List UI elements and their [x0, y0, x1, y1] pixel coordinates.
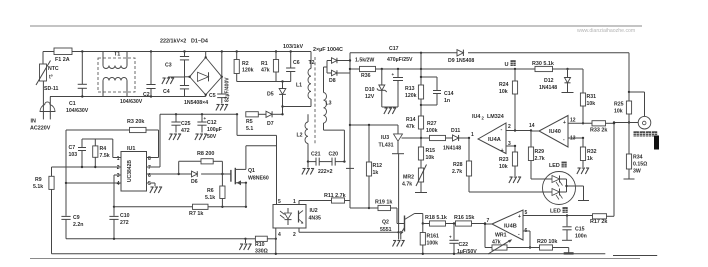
wire U4B pin6: [523, 231, 531, 249]
svg-text:3: 3: [117, 173, 120, 179]
svg-text:U: U: [505, 62, 509, 68]
wire U40 pin12: [568, 122, 592, 124]
resistor R25 10k: [614, 92, 632, 124]
transformer T1 common-mode choke: [98, 52, 135, 97]
svg-text:www.dianziaihaozhe.com: www.dianziaihaozhe.com: [577, 28, 635, 34]
svg-text:+: +: [501, 148, 504, 154]
pin 6: [148, 173, 151, 179]
pin 1: [113, 156, 121, 162]
shunt regulator U3 TL431: [379, 125, 422, 232]
svg-text:103: 103: [69, 152, 78, 158]
svg-text:TL431: TL431: [379, 143, 394, 149]
resistor R12 1k: [366, 125, 382, 208]
wire feedback to LED: [469, 191, 551, 193]
svg-text:47k: 47k: [261, 68, 270, 74]
svg-text:C21: C21: [311, 152, 321, 158]
op-amp U40: [529, 116, 576, 148]
diode D5: [267, 82, 286, 115]
resistor R16 15k: [454, 215, 486, 226]
svg-text:R33 2k: R33 2k: [590, 128, 607, 134]
wire U40 output: [531, 130, 539, 132]
svg-text:100k: 100k: [427, 241, 439, 247]
resistor R34 0.15ohm 3W: [624, 123, 648, 180]
bridge rectifier D1-D4: [184, 52, 223, 107]
svg-text:2: 2: [293, 232, 296, 238]
resistor R19 1k: [369, 200, 397, 211]
svg-text:8: 8: [148, 156, 151, 162]
svg-text:2.7k: 2.7k: [535, 156, 545, 162]
svg-text:1N4148: 1N4148: [443, 146, 461, 152]
svg-text:R23: R23: [499, 157, 509, 163]
wire U-charge rail: [350, 68, 583, 70]
wire R11 jog: [350, 207, 370, 209]
wire drain node to mosfet: [246, 146, 277, 170]
wire plug top feed: [629, 92, 645, 116]
svg-text:IU40: IU40: [549, 129, 561, 135]
svg-text:103/1kV: 103/1kV: [283, 44, 303, 50]
svg-text:1.5k/2W: 1.5k/2W: [355, 58, 374, 64]
pin 5: [278, 199, 281, 205]
svg-text:1n: 1n: [444, 98, 450, 104]
wire U4A inverting input: [506, 129, 532, 131]
resistor R8 200: [179, 151, 223, 174]
svg-text:D1~D4: D1~D4: [191, 39, 208, 45]
svg-text:NTC: NTC: [48, 66, 59, 72]
label 2xuF 1004C: [313, 47, 343, 53]
resistor R2 120k: [234, 52, 254, 82]
pin 5: [147, 181, 163, 193]
svg-text:C25: C25: [181, 121, 191, 127]
transformer T2 core dashed line: [309, 57, 316, 144]
wire pin6 gate row: [147, 173, 231, 175]
wire drain stairs: [237, 114, 277, 135]
ground for C3 C4 midpoint: [162, 77, 185, 84]
svg-text:F1 2A: F1 2A: [55, 57, 70, 63]
diode D11 1N4148: [443, 128, 470, 152]
svg-text:T2: T2: [309, 60, 315, 66]
wire snubber bottom: [237, 80, 291, 82]
node Q2 collector: [422, 222, 424, 224]
svg-text:R29: R29: [535, 149, 545, 155]
svg-text:L3: L3: [326, 101, 332, 107]
capacitor C6: [286, 52, 300, 82]
svg-text:C9: C9: [73, 215, 80, 221]
resistor R5 5.1: [246, 112, 258, 132]
svg-text:IU4A: IU4A: [488, 137, 501, 143]
wire cs ground row: [66, 238, 277, 240]
capacitor C17 470uF/25V: [387, 46, 413, 107]
svg-text:5.1: 5.1: [246, 126, 253, 132]
pin 2: [117, 165, 120, 171]
opto transistor symbol: [299, 211, 304, 224]
svg-text:R11 2.7k: R11 2.7k: [324, 193, 346, 199]
resistor R11 2.7k: [324, 193, 350, 203]
svg-text:R15: R15: [426, 148, 436, 154]
svg-text:R20 10k: R20 10k: [537, 239, 557, 245]
capacitor C4: [163, 60, 189, 97]
svg-text:IU2: IU2: [310, 208, 318, 214]
svg-text:222/1kV×2: 222/1kV×2: [160, 39, 186, 45]
diode D7: [258, 111, 283, 127]
capacitor C14 1n: [420, 76, 454, 105]
svg-text:LED: LED: [550, 209, 561, 215]
svg-text:C1: C1: [69, 101, 76, 107]
wire opto pin4: [275, 228, 277, 239]
svg-text:C5: C5: [209, 93, 216, 99]
pin 4: [65, 181, 121, 187]
wire U40 pin13: [568, 137, 584, 139]
wire bottom common rail: [52, 253, 658, 256]
svg-text:D12: D12: [544, 78, 554, 84]
svg-text:R9: R9: [35, 177, 42, 183]
svg-text:222×2: 222×2: [318, 169, 333, 175]
diode D8 pair: [324, 58, 351, 84]
svg-text:1: 1: [117, 156, 120, 162]
svg-text:100µF: 100µF: [207, 127, 222, 133]
wire pin2 feedback: [52, 166, 122, 168]
resistor R4 7.5k: [93, 139, 110, 167]
wire bottom mains rail: [50, 95, 206, 97]
resistor R28 2.7k: [452, 138, 472, 192]
svg-text:R28: R28: [453, 162, 463, 168]
svg-text:L1: L1: [296, 83, 302, 89]
svg-text:C15: C15: [575, 227, 585, 233]
svg-text:R13: R13: [405, 86, 415, 92]
svg-text:272: 272: [120, 220, 129, 226]
capacitor C20: [318, 152, 346, 176]
ground secondary: [302, 162, 314, 175]
capacitor C7 103: [69, 139, 113, 167]
svg-text:C14: C14: [444, 91, 454, 97]
transistor Q2 5551: [380, 208, 423, 240]
resistor R31 10k: [580, 69, 596, 125]
wire L1 bottom to drain node: [283, 106, 312, 108]
resistor R33 2k: [590, 121, 615, 134]
svg-text:50V: 50V: [207, 134, 217, 140]
zener D10 12V: [365, 69, 387, 107]
svg-text:SD-11: SD-11: [44, 86, 59, 92]
pin 3: [114, 173, 121, 207]
capacitor C10 272: [109, 206, 129, 239]
capacitor C5 82uF/400V: [209, 52, 231, 111]
svg-text:12: 12: [570, 118, 576, 124]
svg-text:104/630V: 104/630V: [120, 99, 143, 105]
label 222/1kV x2: [160, 39, 186, 45]
svg-text:Q1: Q1: [248, 168, 255, 174]
capacitor C21: [307, 152, 332, 166]
svg-text:R8 200: R8 200: [197, 151, 214, 157]
svg-text:2×µF 1004C: 2×µF 1004C: [313, 47, 343, 53]
top border line: [30, 25, 642, 27]
svg-text:Q2: Q2: [382, 220, 389, 226]
svg-text:C12: C12: [207, 120, 217, 126]
resistor R6 5.1k: [205, 174, 225, 207]
svg-text:IN: IN: [31, 119, 36, 125]
wire R29 to LED red: [530, 161, 532, 180]
ground TL431 Q2: [393, 232, 405, 246]
svg-text:R32: R32: [587, 149, 597, 155]
resistor R32 1k: [577, 138, 597, 174]
resistor R10 330: [246, 236, 276, 254]
resistor R29 2.7k: [528, 131, 544, 179]
capacitor C2: [120, 52, 156, 106]
svg-text:7.5k: 7.5k: [100, 153, 110, 159]
svg-text:R2: R2: [242, 61, 249, 67]
svg-text:R6: R6: [207, 188, 214, 194]
wire secondary top rail with D9: [350, 52, 629, 54]
optocoupler U2 4N35: [273, 205, 321, 229]
svg-text:R1: R1: [261, 61, 268, 67]
svg-text:L2: L2: [297, 133, 303, 139]
svg-text:t°: t°: [49, 75, 53, 81]
wire vcc rail caps: [160, 113, 238, 115]
svg-text:MR2: MR2: [403, 175, 414, 181]
resistor R18 5.1k: [423, 215, 456, 226]
svg-text:R161: R161: [427, 234, 440, 240]
svg-text:1N4148: 1N4148: [539, 85, 557, 91]
thermistor MR2 4.7k: [402, 165, 427, 193]
svg-text:+: +: [518, 214, 521, 220]
svg-text:82µF/400V: 82µF/400V: [225, 77, 231, 102]
wire TL431 top link: [350, 124, 398, 126]
svg-text:7: 7: [487, 218, 490, 224]
svg-text:1: 1: [293, 199, 296, 205]
svg-text:7: 7: [148, 165, 151, 171]
capacitor C15 100n: [562, 216, 587, 241]
svg-text:R10: R10: [255, 242, 265, 248]
svg-text:+: +: [563, 120, 566, 126]
wire current sense row: [114, 206, 247, 208]
resistor R23 10k: [499, 146, 521, 183]
op-amp U4B: [487, 210, 528, 240]
resistor R24 10k: [499, 69, 518, 131]
capacitor C3: [165, 52, 189, 69]
capacitor C22 1uF/50V: [449, 224, 477, 256]
svg-text:R7 1k: R7 1k: [189, 211, 203, 217]
svg-text:472: 472: [181, 128, 190, 134]
svg-text:LM324: LM324: [487, 114, 504, 120]
svg-text:AC220V: AC220V: [30, 126, 51, 132]
IC IU1 UC3842B: [121, 146, 147, 191]
resistor R36 1.5k/2W: [355, 58, 376, 80]
svg-text:C17: C17: [389, 46, 399, 52]
svg-text:C6: C6: [293, 60, 300, 66]
wire U4B output node: [484, 223, 492, 225]
svg-text:10k: 10k: [587, 101, 596, 107]
transformer T2 aux winding L2: [297, 114, 309, 161]
svg-text:14: 14: [529, 123, 535, 129]
svg-text:IU4: IU4: [472, 114, 480, 120]
diode D12 1N4148: [539, 69, 574, 93]
wire U4A noninverting input: [506, 145, 516, 147]
svg-text:47k: 47k: [492, 240, 501, 246]
svg-text:R12: R12: [373, 163, 383, 169]
svg-text:D7: D7: [267, 121, 274, 127]
svg-text:C3: C3: [165, 63, 172, 69]
svg-text:R5: R5: [246, 119, 253, 125]
svg-text:R30 5.1k: R30 5.1k: [532, 61, 554, 67]
wire top rail drop right: [628, 53, 630, 93]
black mark: [654, 136, 659, 150]
wire opto pin2 row: [299, 228, 400, 234]
pin 2: [293, 232, 296, 238]
svg-text:R34: R34: [633, 155, 643, 161]
svg-text:C7: C7: [69, 145, 76, 151]
svg-text:4N35: 4N35: [309, 216, 322, 222]
plug IN AC220V: [30, 97, 55, 132]
svg-text:W8NE60: W8NE60: [248, 176, 269, 182]
resistor R1 47k: [261, 52, 279, 82]
capacitor C12 100uF 50V: [195, 114, 222, 140]
svg-text:D6: D6: [191, 179, 198, 185]
fuse F1: [54, 48, 72, 63]
svg-text:IU3: IU3: [381, 135, 389, 141]
wire opto collector riser: [276, 135, 278, 204]
svg-text:IU1: IU1: [127, 146, 135, 152]
svg-text:2.7k: 2.7k: [452, 169, 462, 175]
svg-text:5: 5: [278, 199, 281, 205]
wire R33 node drop: [613, 123, 615, 216]
svg-text:2: 2: [117, 165, 120, 171]
resistor R3 20k: [66, 119, 159, 158]
wire opto pin1 to R11: [299, 201, 332, 205]
wire pin1 riser: [112, 139, 114, 158]
svg-text:3W: 3W: [633, 169, 641, 175]
svg-text:R16 15k: R16 15k: [454, 215, 474, 221]
svg-text:-: -: [501, 127, 503, 133]
resistor R7 1k: [189, 204, 208, 217]
svg-text:R17 2k: R17 2k: [590, 219, 607, 225]
bottom border line: [30, 258, 640, 260]
svg-text:5: 5: [148, 181, 151, 187]
opto LED symbol: [280, 208, 292, 225]
svg-text:LED: LED: [549, 163, 560, 169]
svg-text:5.1k: 5.1k: [205, 195, 215, 201]
transistor Q1 W8NE60 mosfet: [231, 168, 269, 207]
svg-text:C10: C10: [120, 213, 130, 219]
svg-text:1N5408×4: 1N5408×4: [184, 100, 208, 106]
label IU4 LM324: [472, 114, 504, 121]
capacitor C25 472: [169, 114, 191, 140]
resistor R27 100k: [421, 121, 446, 141]
svg-text:R18 5.1k: R18 5.1k: [425, 215, 447, 221]
diode D6: [191, 171, 198, 185]
pin 1: [293, 199, 296, 205]
svg-text:C4: C4: [163, 89, 170, 95]
pin 8: [147, 156, 154, 162]
pin 7: [147, 165, 161, 171]
svg-text:1k: 1k: [587, 156, 593, 162]
svg-text:T1: T1: [114, 52, 120, 58]
svg-text:R36: R36: [361, 73, 371, 79]
diode D9 1N5408: [448, 50, 474, 64]
resistor R17 2k: [590, 214, 614, 225]
svg-text:+: +: [392, 72, 395, 77]
svg-text:4: 4: [117, 181, 120, 187]
ground for D10 C17: [382, 107, 398, 114]
svg-text:R19 1k: R19 1k: [375, 200, 392, 206]
svg-text:R27: R27: [427, 121, 437, 127]
svg-text:UC3842B: UC3842B: [127, 160, 133, 182]
wire LED cathodes join: [565, 179, 589, 201]
svg-text:5551: 5551: [380, 227, 392, 233]
wire opto emitter riser to rail: [275, 239, 277, 254]
label U charge: [505, 60, 516, 68]
svg-text:C22: C22: [459, 242, 469, 248]
svg-text:R24: R24: [499, 82, 509, 88]
LED red: [531, 176, 567, 187]
charging plug connector: [634, 116, 658, 136]
svg-text:5.1k: 5.1k: [33, 184, 43, 190]
transformer T2 primary L1: [296, 52, 311, 107]
svg-text:C20: C20: [329, 152, 339, 158]
svg-text:0.15Ω: 0.15Ω: [633, 162, 647, 168]
wire U4B pin5: [523, 214, 593, 216]
transformer T2 secondary L3: [324, 67, 345, 162]
svg-text:1k: 1k: [373, 170, 379, 176]
resistor R161 100k: [420, 224, 439, 254]
svg-text:100n: 100n: [575, 234, 587, 240]
svg-text:4: 4: [278, 232, 281, 238]
svg-text:470µF/25V: 470µF/25V: [387, 57, 413, 63]
svg-text:+: +: [449, 235, 452, 240]
svg-text:R25: R25: [614, 102, 624, 108]
svg-text:120k: 120k: [405, 93, 417, 99]
resistor R30 5.1k: [532, 61, 583, 72]
wire top mains rail: [43, 50, 311, 52]
svg-text:R31: R31: [587, 94, 597, 100]
svg-text:1: 1: [471, 132, 474, 138]
svg-text:C2: C2: [143, 92, 150, 98]
svg-text:IU4B: IU4B: [504, 224, 517, 230]
resistor R9 5.1k: [33, 167, 54, 254]
wire secondary plus column: [346, 53, 354, 208]
svg-text:D8: D8: [329, 78, 336, 84]
op-amp U4A: [471, 123, 511, 154]
svg-text:D10: D10: [365, 87, 375, 93]
resistor R20 10k: [537, 239, 574, 254]
svg-text:4.7k: 4.7k: [402, 182, 412, 188]
pin 4: [278, 232, 281, 238]
resistor R13 120k: [405, 53, 424, 116]
thermistor NTC SD-11: [36, 52, 59, 107]
resistor R14 47k: [406, 116, 424, 147]
wire vcc riser pin7: [159, 114, 161, 167]
svg-text:D9 1N5408: D9 1N5408: [448, 58, 474, 64]
svg-text:D5: D5: [267, 92, 274, 98]
svg-text:R3 20k: R3 20k: [127, 119, 144, 125]
svg-text:120k: 120k: [242, 68, 254, 74]
svg-text:D11: D11: [451, 128, 460, 134]
capacitor C9 2.2n: [61, 130, 83, 239]
potentiometer WR1 47k: [485, 224, 540, 254]
label D1~D4: [191, 39, 208, 45]
svg-text:2.2n: 2.2n: [73, 222, 83, 228]
LED indicator circle: [543, 162, 576, 215]
ground primary sense: [239, 239, 251, 250]
svg-text:47k: 47k: [406, 124, 415, 130]
svg-text:104/630V: 104/630V: [66, 108, 89, 114]
svg-text:12V: 12V: [365, 94, 375, 100]
svg-text:R14: R14: [406, 117, 416, 123]
resistor R15 10k: [418, 147, 435, 168]
svg-text:WR1: WR1: [495, 233, 507, 239]
watermark text: [577, 28, 635, 34]
svg-text:100k: 100k: [426, 128, 438, 134]
svg-text:10k: 10k: [499, 164, 508, 170]
wire sense node row: [613, 121, 638, 123]
svg-text:10k: 10k: [614, 109, 623, 115]
